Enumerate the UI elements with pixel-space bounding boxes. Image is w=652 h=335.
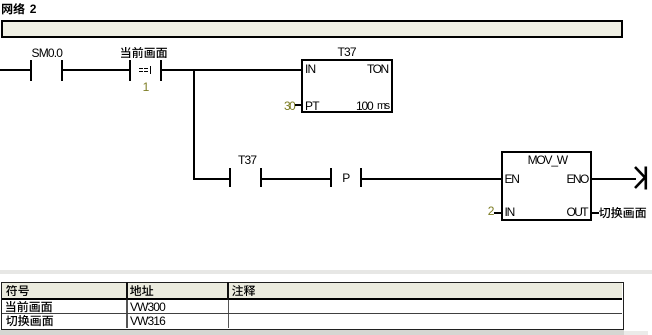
compare operator ==I <box>139 68 143 70</box>
row1 address VW300 <box>130 301 165 313</box>
column separator 1 <box>126 282 128 300</box>
row separator 1 <box>2 313 622 314</box>
bottom scrollbar strip <box>0 330 624 335</box>
row2 symbol 切换画面 <box>6 315 54 327</box>
compare contact ==1 (当前画面) <box>121 47 168 59</box>
column separator 2 <box>227 282 229 300</box>
network title 网络 2 <box>2 3 25 15</box>
wire ENO to continuation arrow <box>592 178 636 180</box>
table header row <box>2 283 622 298</box>
OUT destination label 切换画面 <box>599 207 647 219</box>
IN pin tick <box>494 212 501 214</box>
MOV_W IN value 2 <box>488 205 495 217</box>
row2 address VW316 <box>130 315 165 327</box>
row1 symbol 当前画面 <box>6 301 53 313</box>
header 地址 <box>130 285 154 296</box>
contact T37 <box>238 154 256 166</box>
wire SM0.0 to compare contact <box>63 69 129 71</box>
PT pin tick <box>295 104 301 106</box>
contact SM0.0 <box>32 47 63 59</box>
splitter bar <box>0 270 652 274</box>
positive edge contact P <box>330 168 332 188</box>
compare value 1 <box>143 81 150 93</box>
wire left rail to contact SM0.0 <box>0 69 30 71</box>
network separator bar <box>1 20 623 38</box>
header 注释 <box>232 285 256 297</box>
header 符号 <box>6 285 29 297</box>
MOV_W box <box>501 151 592 221</box>
OUT pin wire <box>592 212 599 214</box>
continuation arrow <box>633 165 649 191</box>
T37 PT value 30 <box>284 100 294 112</box>
symbol table <box>1 282 624 330</box>
wire contact P to MOV_W EN <box>362 178 501 180</box>
branch wire down to rung 2 <box>193 69 195 180</box>
wire compare contact to timer T37 <box>162 69 301 71</box>
timer box T37 <box>338 46 356 58</box>
wire contact T37 to edge contact P <box>262 178 330 180</box>
wire rung2 from branch to contact T37 <box>195 178 230 180</box>
